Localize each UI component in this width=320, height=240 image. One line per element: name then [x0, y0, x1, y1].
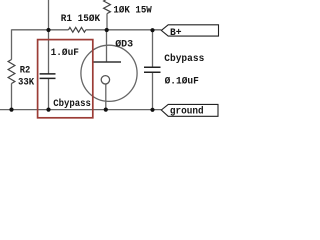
- wire 10K resistor lead: [106, 14, 108, 30]
- svg-text:ground: ground: [170, 105, 204, 117]
- resistor R2: [8, 60, 15, 84]
- tube V1 anode plate: [92, 61, 121, 63]
- svg-text:Cbypass: Cbypass: [53, 98, 91, 110]
- wire capacitor C1 bottom lead: [48, 78, 50, 109]
- net tag B+: [161, 25, 218, 36]
- wire right cap top lead: [152, 30, 154, 67]
- wire top rail left segment: [12, 29, 69, 31]
- tube V1 cathode circle: [101, 76, 109, 84]
- wire bottom rail: [0, 109, 161, 111]
- resistor R1: [69, 27, 86, 32]
- wire left rail upper: [11, 29, 13, 59]
- junction tube anode node: [105, 28, 109, 32]
- wire right cap bottom lead: [152, 72, 154, 109]
- junction ground node: [150, 108, 154, 112]
- junction C1 bottom node: [46, 108, 50, 112]
- svg-text:1.ØuF: 1.ØuF: [51, 47, 79, 59]
- net tag ground: [161, 104, 218, 116]
- svg-text:Ø.1ØuF: Ø.1ØuF: [165, 76, 199, 88]
- svg-text:B+: B+: [170, 28, 182, 39]
- highlight box (red): [38, 40, 93, 118]
- wire tube cathode lead: [105, 84, 107, 110]
- wire left rail lower: [11, 84, 13, 110]
- wire top feed from edge: [48, 0, 50, 30]
- capacitor Cbypass 0.10uF plates: [144, 67, 161, 72]
- wire top rail right segment: [86, 29, 162, 31]
- svg-text:33K: 33K: [18, 78, 34, 89]
- tube V1 envelope: [81, 45, 137, 101]
- junction top feed node: [46, 28, 50, 32]
- wire capacitor C1 top lead: [48, 30, 50, 74]
- capacitor C1 1.0uF plates: [40, 74, 56, 79]
- junction bottom left node: [9, 108, 13, 112]
- svg-text:Cbypass: Cbypass: [164, 53, 204, 65]
- wire tube anode lead: [106, 30, 108, 62]
- junction B+ node: [150, 28, 154, 32]
- svg-text:1ØK 15W: 1ØK 15W: [113, 4, 151, 16]
- junction cathode bottom node: [104, 108, 108, 112]
- svg-text:ØD3: ØD3: [115, 38, 133, 50]
- svg-text:R2: R2: [20, 66, 31, 77]
- resistor 10K 15W: [104, 0, 111, 14]
- svg-text:R1 15ØK: R1 15ØK: [61, 13, 100, 25]
